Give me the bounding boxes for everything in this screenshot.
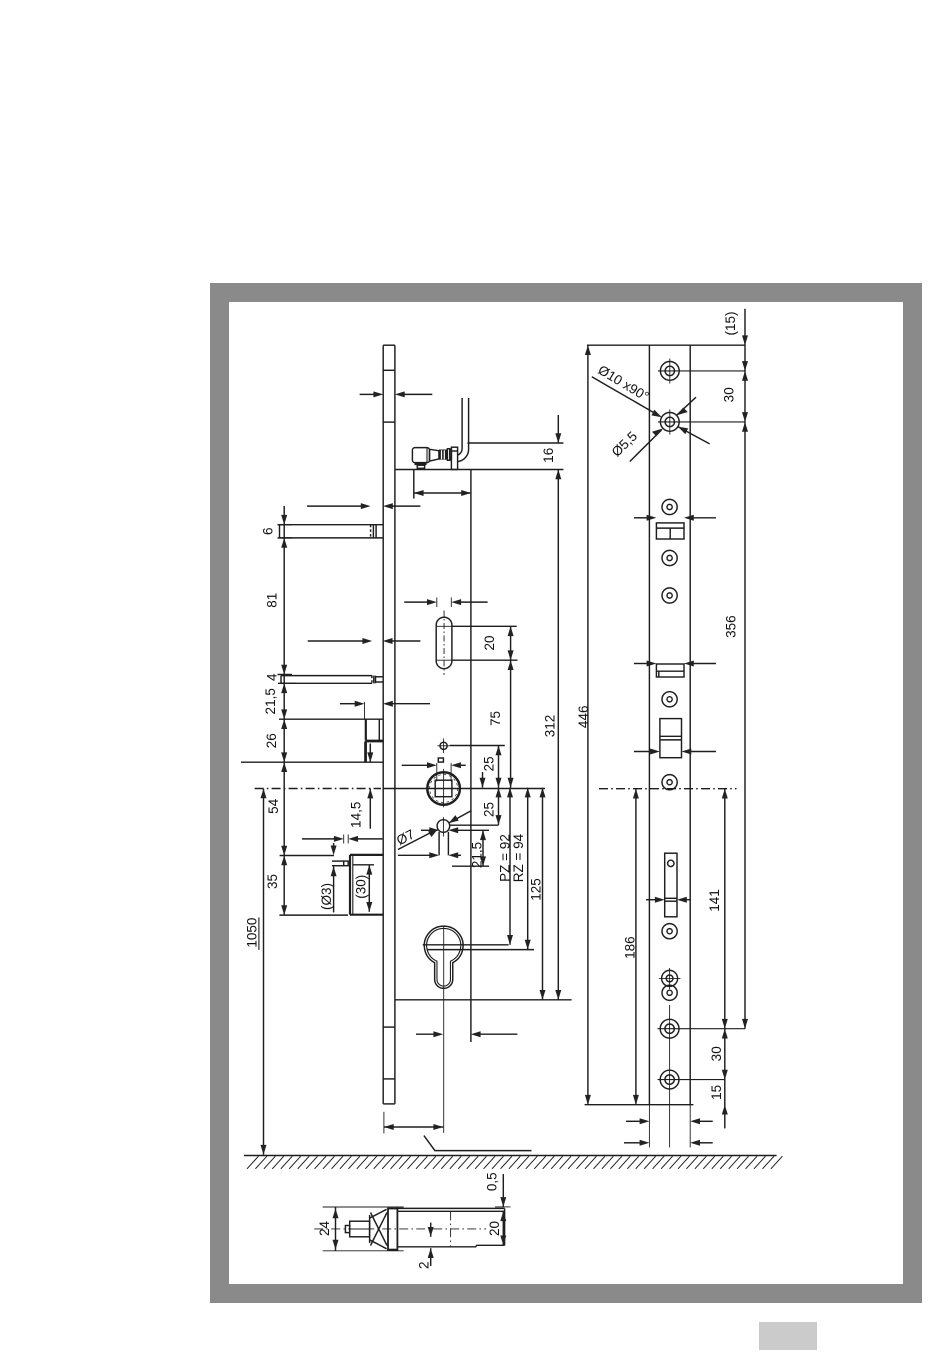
dim 25 lower — [498, 788, 500, 825]
dim 312 line — [557, 470, 559, 1000]
svg-text:14,5: 14,5 — [349, 802, 364, 828]
strike plate bottom line — [585, 1104, 694, 1106]
dim 16 reference line — [467, 442, 563, 444]
svg-text:20: 20 — [487, 1221, 502, 1236]
spindle square hole — [435, 780, 452, 797]
svg-text:35: 35 — [265, 874, 280, 889]
RZ reference line — [427, 949, 534, 951]
dim 1050 line — [263, 789, 265, 1155]
dim 125 — [542, 788, 544, 1000]
oval ref lines right — [452, 625, 517, 627]
dim 0,5 — [495, 1206, 511, 1208]
O7 hole — [437, 820, 450, 833]
dim (O3) — [333, 867, 335, 913]
svg-text:30: 30 — [722, 387, 737, 402]
strike hole 10 — [662, 985, 677, 1000]
latch protrusion dim — [307, 505, 361, 507]
strike hole 6 — [662, 692, 677, 707]
keeper pocket 2 — [656, 664, 684, 677]
strike plate top edge line — [587, 344, 745, 346]
ground hatching — [247, 1156, 782, 1169]
deadbolt face dim — [340, 703, 355, 705]
pocket 1 width dim — [634, 517, 647, 519]
pocket 3 width dim — [634, 751, 651, 753]
dim 141 — [724, 789, 726, 1029]
faceplate thickness dim at top — [360, 393, 374, 395]
strike center vertical line — [669, 1005, 671, 1148]
svg-text:446: 446 — [576, 706, 591, 729]
PZ reference line — [423, 944, 509, 946]
lock case outline — [395, 469, 471, 471]
svg-text:356: 356 — [723, 615, 738, 638]
cable — [457, 398, 462, 455]
svg-text:(30): (30) — [354, 875, 369, 899]
backset dim at bottom — [383, 1112, 385, 1134]
svg-text:20: 20 — [482, 635, 497, 650]
dim 186 — [635, 789, 637, 1105]
hook slot width dim — [646, 899, 655, 901]
case edge to axis dim — [416, 1033, 434, 1035]
svg-text:4: 4 — [264, 673, 279, 681]
dim 25 upper — [498, 746, 500, 788]
dim 446 line — [587, 345, 589, 1104]
strike hole 1 countersunk — [660, 362, 679, 381]
dim 20 — [510, 626, 512, 660]
strike width dim 1 — [626, 1120, 640, 1122]
strike width dim 2 — [624, 1142, 640, 1144]
dim 15 bottom — [724, 1080, 726, 1129]
small hole above follower — [440, 742, 447, 749]
dim 14,5 — [369, 744, 371, 763]
dim 16 — [557, 415, 559, 443]
svg-text:2: 2 — [417, 1262, 432, 1270]
connector collar — [447, 449, 449, 461]
svg-text:25: 25 — [482, 756, 497, 771]
O3 hole — [344, 861, 349, 866]
O7 stem bottom dim — [398, 854, 430, 856]
floor leader line — [424, 1136, 532, 1151]
auxiliary latch — [281, 675, 372, 677]
dim 21,5 vertical — [452, 865, 489, 867]
svg-text:21,5: 21,5 — [469, 842, 484, 868]
svg-text:Ø7: Ø7 — [394, 827, 417, 849]
svg-text:24: 24 — [317, 1221, 332, 1237]
connector body — [412, 448, 429, 463]
strike bottom extension lines — [648, 1105, 650, 1148]
left dimension chain line — [283, 506, 285, 915]
strike hole 3 — [662, 499, 677, 514]
connector knurled nut — [439, 450, 448, 460]
svg-text:0,5: 0,5 — [484, 1172, 499, 1191]
dim (30) — [353, 864, 374, 866]
main horizontal centerline — [255, 788, 381, 790]
strike hole 12 countersunk — [660, 1070, 679, 1089]
ground line — [244, 1155, 777, 1157]
strike hole 4 — [662, 550, 677, 565]
page number box — [759, 1322, 817, 1350]
strike ladder 15/30/356 — [744, 309, 746, 1029]
detail section break dashline — [450, 1211, 452, 1247]
case top reference line for dim 16/312 — [471, 469, 564, 471]
cylinder profile inner — [427, 928, 461, 986]
strike hole 2 countersunk — [660, 413, 679, 432]
svg-text:25: 25 — [482, 802, 497, 817]
svg-text:30: 30 — [709, 1046, 724, 1061]
spindle follower ring — [427, 772, 460, 805]
hook slot piece — [665, 853, 677, 917]
O5,5 leader — [630, 430, 662, 462]
O7 leader — [398, 830, 436, 850]
backset pocket box — [350, 854, 383, 856]
connector neck — [430, 449, 439, 461]
cylinder axis vertical — [443, 927, 445, 1133]
strike hole 7 — [662, 775, 677, 790]
O7 stem — [438, 832, 440, 856]
detail screw axis centerline — [314, 1228, 486, 1230]
cylinder profile outer — [424, 926, 463, 988]
tiny square hole — [438, 758, 443, 762]
connector foot — [415, 463, 427, 466]
dim 75 — [510, 660, 512, 787]
strike plate body — [648, 345, 650, 1104]
dim 20 detail — [502, 1211, 504, 1245]
page border frame — [220, 293, 913, 1294]
deadbolt — [365, 719, 367, 740]
O3 pointer arrow upper — [333, 843, 335, 846]
svg-text:81: 81 — [265, 593, 280, 608]
detail faceplate section — [388, 1209, 397, 1250]
ref line O7 to 25 — [450, 824, 499, 826]
svg-text:54: 54 — [266, 798, 281, 814]
O7 stem top dim — [421, 829, 430, 831]
O10x90 leader — [592, 377, 660, 416]
strike centerline — [599, 788, 737, 790]
strike hole 5 — [662, 588, 677, 603]
extra centerline arrow — [482, 772, 484, 788]
case bottom reference line — [395, 999, 572, 1001]
connector width dim — [413, 470, 415, 499]
svg-text:75: 75 — [488, 711, 503, 726]
dim 2 detail — [430, 1223, 432, 1237]
detail body — [397, 1207, 504, 1209]
keeper pocket 3 — [660, 719, 682, 758]
detail screw — [345, 1226, 349, 1233]
faceplate joint ticks — [383, 369, 395, 371]
detail ext lines 24 — [323, 1206, 404, 1208]
svg-text:141: 141 — [707, 889, 722, 912]
oval width dim — [436, 598, 438, 608]
square width dim — [436, 763, 438, 782]
deadbolt face extension line — [364, 702, 366, 719]
latch bolt — [280, 524, 384, 526]
dim RZ 94 — [527, 788, 529, 950]
svg-text:21,5: 21,5 — [263, 688, 278, 714]
svg-text:(15): (15) — [723, 311, 738, 335]
svg-text:(Ø3): (Ø3) — [319, 883, 334, 910]
aux latch protrusion dim — [308, 640, 363, 642]
dim 24 — [335, 1207, 337, 1251]
O3 width dim — [343, 835, 345, 844]
ref line 25 upper — [450, 745, 505, 747]
svg-text:26: 26 — [264, 733, 279, 748]
strike hole 11 countersunk — [660, 1019, 679, 1038]
deadbolt lower block — [365, 741, 383, 743]
pocket 2 width dim — [634, 663, 647, 665]
chain ref ticks — [278, 524, 293, 526]
svg-text:1050: 1050 — [244, 918, 259, 948]
svg-text:15: 15 — [709, 1085, 724, 1100]
keeper pocket 1 — [656, 523, 684, 539]
chain arrows — [281, 515, 287, 525]
dim PZ 92 — [509, 788, 511, 945]
oval slot — [436, 617, 452, 668]
svg-text:312: 312 — [543, 715, 558, 738]
lock faceplate — [382, 345, 384, 1104]
svg-text:RZ = 94: RZ = 94 — [511, 833, 526, 882]
dim 30 bottom — [724, 1029, 726, 1080]
svg-text:16: 16 — [541, 448, 556, 463]
strike hole 9 countersunk small — [662, 970, 678, 986]
strike hole 8 — [662, 924, 677, 939]
svg-text:6: 6 — [261, 528, 276, 536]
svg-text:186: 186 — [623, 936, 638, 959]
svg-text:125: 125 — [528, 878, 543, 901]
connector bracket — [451, 447, 457, 469]
